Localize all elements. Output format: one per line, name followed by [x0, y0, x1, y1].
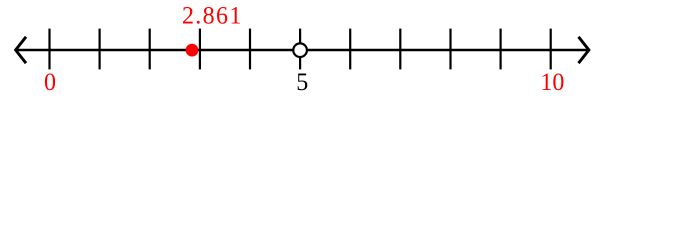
left arrowhead	[16, 37, 26, 63]
tick 9	[500, 29, 502, 70]
svg-text:10: 10	[540, 68, 564, 96]
tick 0	[48, 29, 50, 70]
number line axis with arrows	[16, 49, 589, 52]
tick 2	[149, 29, 151, 70]
tick 7	[399, 29, 401, 70]
tick 6	[349, 29, 351, 70]
tick 5	[299, 29, 301, 70]
tick 3	[199, 29, 201, 70]
tick 1	[98, 29, 100, 70]
svg-text:0: 0	[44, 68, 56, 96]
svg-text:5: 5	[296, 68, 308, 96]
svg-text:2.861: 2.861	[182, 2, 243, 30]
red point at 2.861	[186, 44, 199, 57]
tick 10	[550, 29, 552, 70]
tick 8	[449, 29, 451, 70]
tick 4	[249, 29, 251, 70]
open circle at 5	[293, 43, 307, 57]
right arrowhead	[579, 37, 589, 63]
